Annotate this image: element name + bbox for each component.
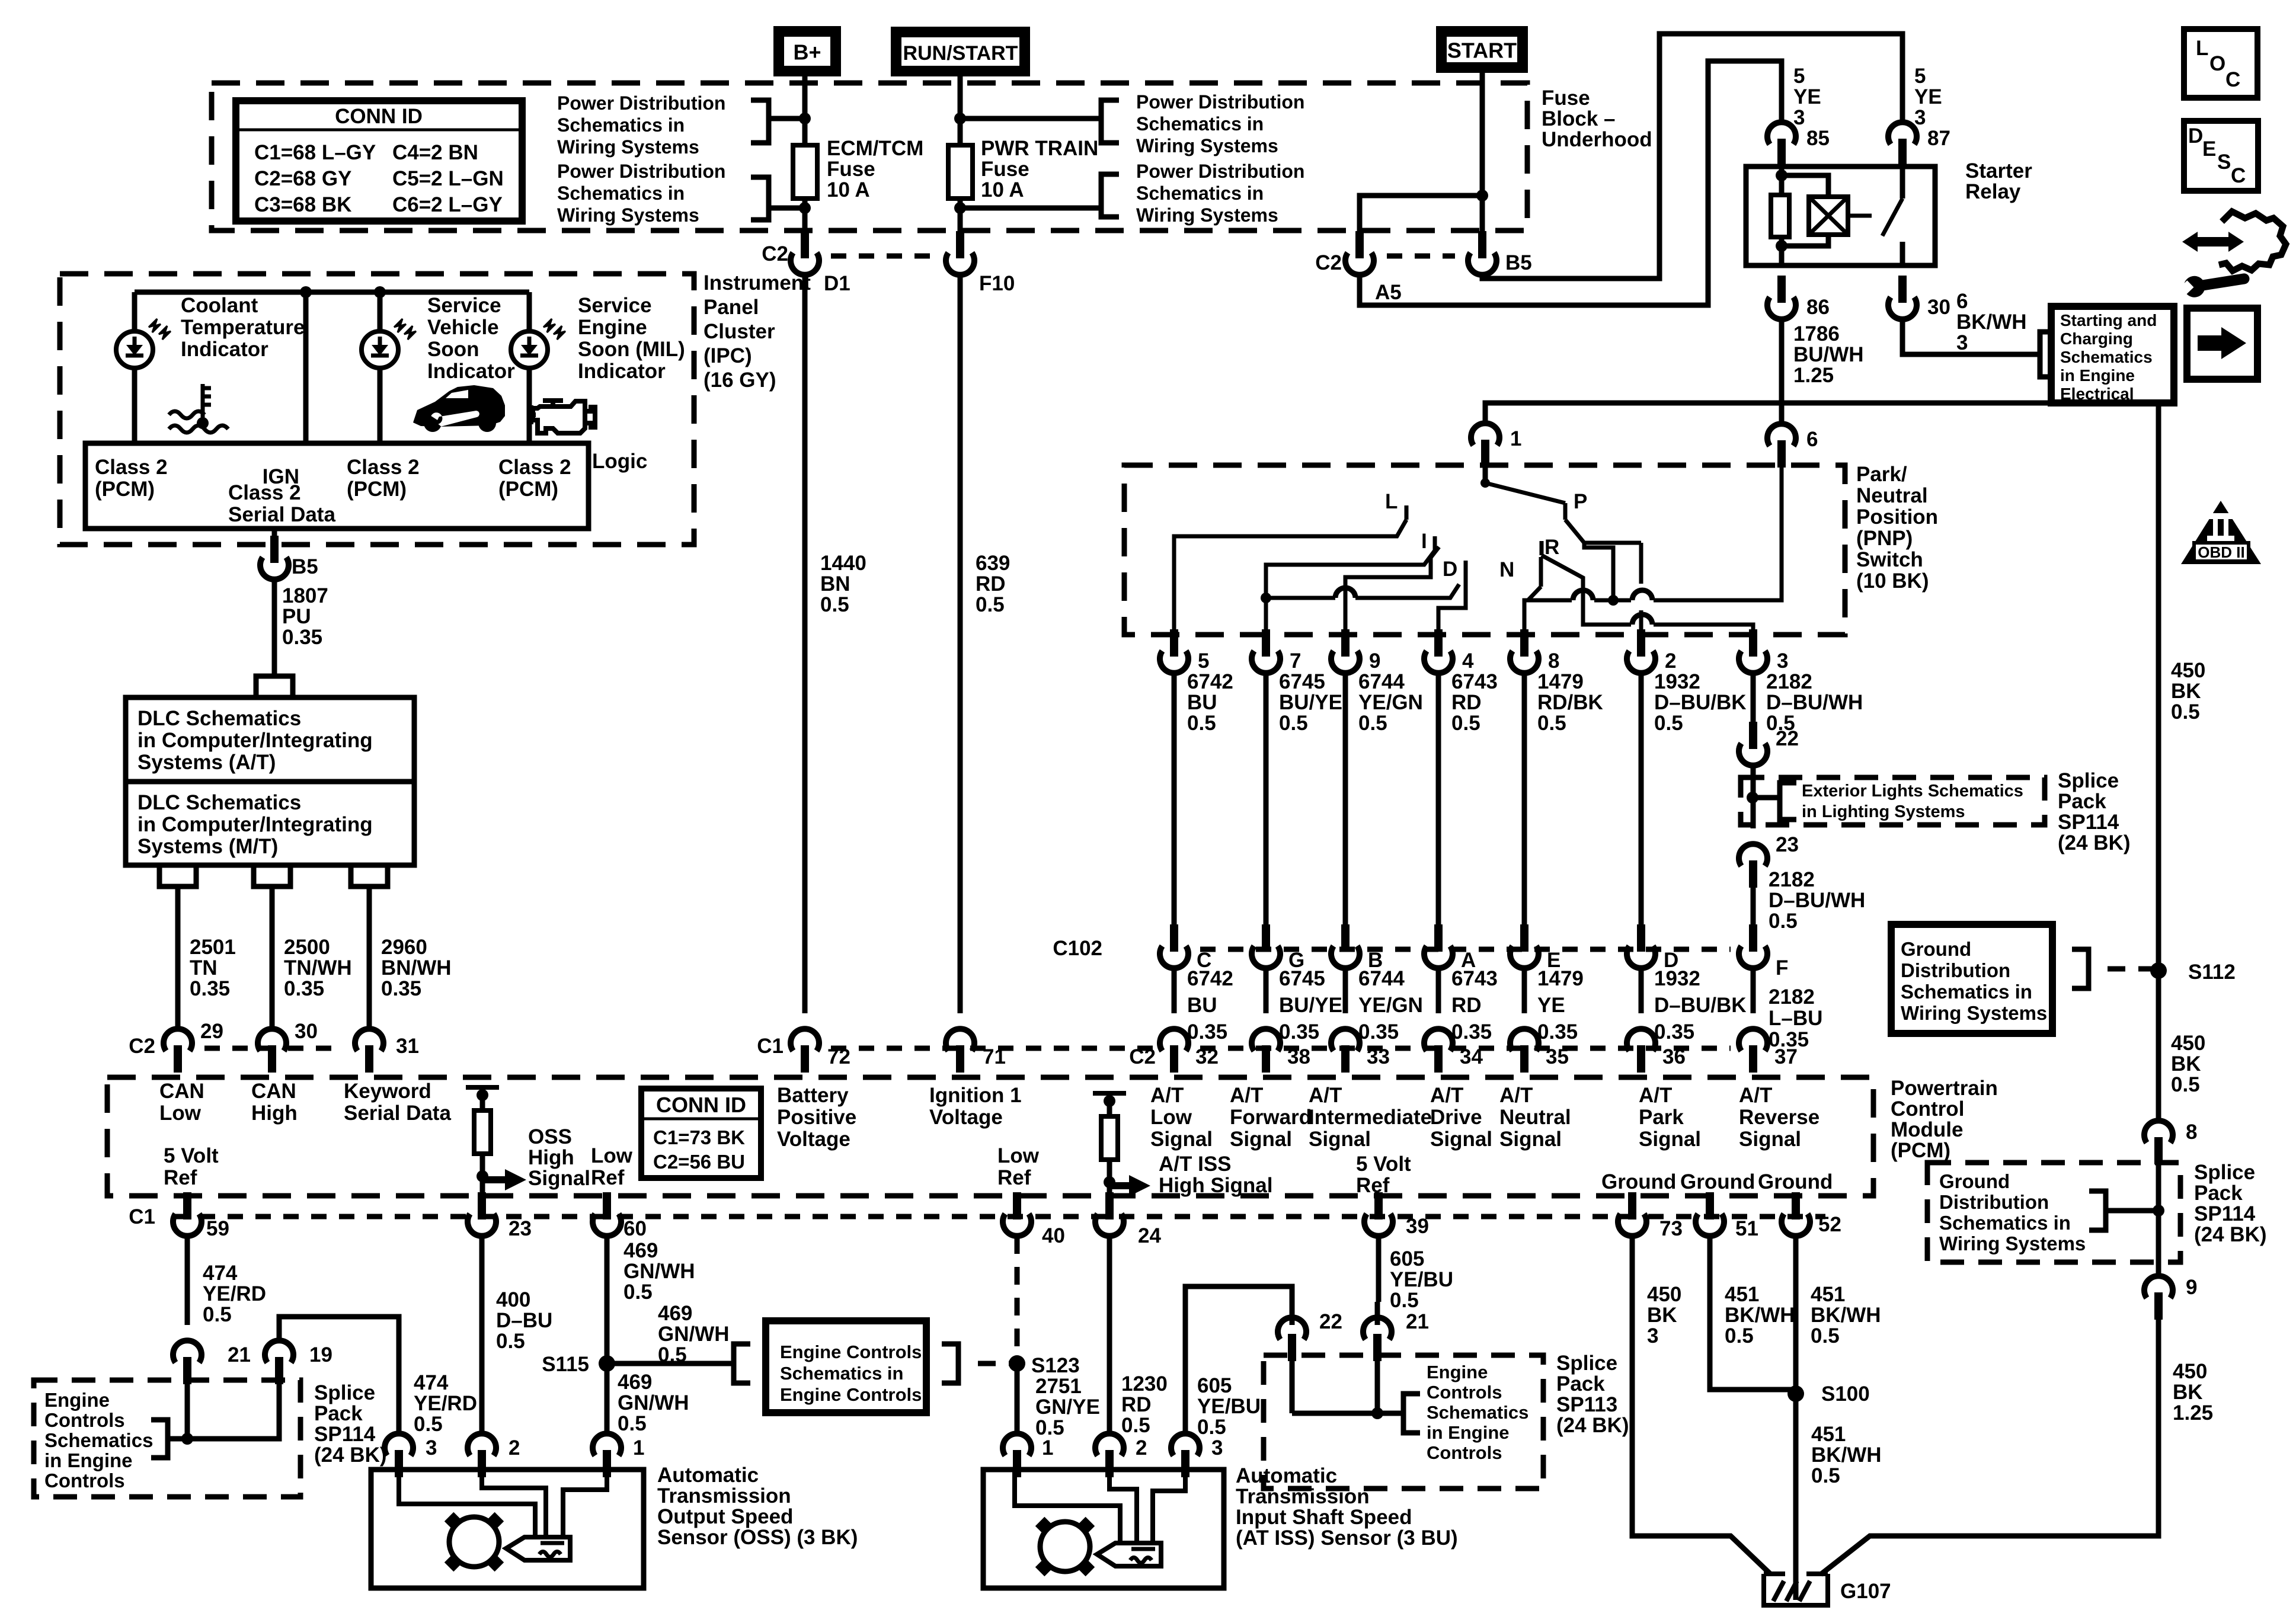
connector C1 pin 24 (1105, 1192, 1114, 1219)
svg-text:9: 9 (1369, 649, 1380, 673)
svg-text:1: 1 (633, 1436, 644, 1459)
svg-text:Low: Low (159, 1102, 202, 1125)
connector C1 pin 39 (1374, 1192, 1383, 1219)
connector row dotted line 32-37 (1200, 1046, 1731, 1051)
icon DESC box (2184, 121, 2258, 191)
svg-text:474: 474 (414, 1371, 449, 1394)
svg-text:Exterior Lights Schematics: Exterior Lights Schematics (1802, 782, 2023, 801)
svg-text:0.5: 0.5 (2171, 1073, 2200, 1096)
svg-text:0.5: 0.5 (2171, 700, 2200, 724)
goalpost DLC output 2 (254, 865, 290, 886)
svg-text:S: S (2217, 151, 2231, 174)
svg-text:Ground: Ground (1601, 1170, 1676, 1193)
connector C102 pin B (1341, 924, 1350, 952)
svg-text:R: R (1544, 536, 1559, 559)
svg-text:BU/YE: BU/YE (1279, 691, 1342, 714)
svg-text:22: 22 (1319, 1310, 1342, 1333)
svg-text:469: 469 (618, 1371, 652, 1394)
svg-text:YE/GN: YE/GN (1358, 691, 1423, 714)
svg-text:5: 5 (1793, 65, 1805, 88)
connector C2 pin 36 (1637, 1045, 1645, 1073)
svg-text:B5: B5 (1505, 251, 1532, 274)
svg-text:30: 30 (1927, 296, 1950, 319)
splice S100 (1787, 1385, 1804, 1402)
svg-text:3: 3 (1914, 106, 1926, 129)
junction node on RUN/START wire (954, 113, 966, 124)
svg-text:(PCM): (PCM) (347, 478, 407, 501)
dashed wire to S123 (978, 1361, 1017, 1366)
svg-text:A/T: A/T (1430, 1084, 1463, 1107)
svg-text:2500: 2500 (284, 936, 330, 959)
svg-text:6: 6 (1956, 290, 1968, 313)
svg-text:1: 1 (1510, 427, 1521, 450)
svg-text:Engine: Engine (578, 316, 647, 339)
svg-text:Class 2: Class 2 (347, 456, 420, 479)
connector C2 pin 38 (1262, 1045, 1270, 1073)
svg-text:Signal: Signal (1150, 1128, 1213, 1151)
svg-text:C1: C1 (129, 1205, 155, 1228)
svg-text:451: 451 (1811, 1423, 1846, 1446)
bracket engine controls note (SP114) (168, 1436, 187, 1442)
wire intermediate to pin 9 (1345, 547, 1439, 635)
fuse block underhood dashed box (212, 83, 1527, 231)
svg-text:SP114: SP114 (314, 1423, 376, 1446)
junction node SP114 left (181, 1433, 193, 1445)
OSS sensor connectors (395, 1450, 403, 1477)
wire C102 E to PCM 35 (1522, 968, 1527, 1013)
svg-text:451: 451 (1725, 1283, 1759, 1306)
svg-text:3: 3 (1777, 649, 1788, 673)
svg-text:A/T ISS: A/T ISS (1159, 1153, 1232, 1176)
svg-text:Engine Controls: Engine Controls (780, 1384, 922, 1405)
svg-text:in Computer/Integrating: in Computer/Integrating (137, 729, 373, 752)
icon wrench and arrows (2219, 212, 2286, 271)
svg-text:D1: D1 (824, 272, 850, 295)
svg-text:Output Speed: Output Speed (657, 1505, 793, 1528)
wire 450 BK 1.25 to G107 (1821, 1304, 2159, 1574)
svg-text:YE/RD: YE/RD (414, 1392, 477, 1415)
svg-text:PU: PU (282, 605, 311, 628)
svg-text:0.5: 0.5 (1811, 1324, 1840, 1347)
resistor OSS pullup inside PCM (466, 1085, 499, 1090)
connector PNP pin 3 (1749, 629, 1757, 657)
svg-text:0.5: 0.5 (1197, 1416, 1226, 1439)
wire ECM/TCM fuse to connector D1 (802, 199, 808, 237)
svg-text:BK: BK (2171, 680, 2201, 703)
svg-text:BU/WH: BU/WH (1793, 343, 1864, 366)
svg-text:Class 2: Class 2 (498, 456, 571, 479)
svg-text:52: 52 (1818, 1213, 1841, 1236)
svg-text:RD: RD (1121, 1393, 1152, 1416)
svg-text:0.5: 0.5 (1121, 1414, 1150, 1437)
svg-text:Wiring Systems: Wiring Systems (1939, 1233, 2086, 1254)
svg-text:Schematics in: Schematics in (1136, 183, 1264, 204)
svg-text:GN/WH: GN/WH (618, 1391, 689, 1414)
svg-text:CONN ID: CONN ID (335, 105, 423, 128)
junction node SP113 (1371, 1407, 1383, 1419)
engine controls schematics box (S115) (766, 1321, 926, 1413)
svg-text:Ground: Ground (1901, 938, 1971, 960)
svg-text:Schematics in: Schematics in (1939, 1212, 2071, 1234)
svg-text:Block –: Block – (1542, 107, 1616, 130)
bracket to note lower-middle (1101, 174, 1119, 217)
svg-text:C2: C2 (1315, 251, 1342, 274)
svg-text:Battery: Battery (777, 1084, 849, 1107)
svg-text:TN/WH: TN/WH (284, 956, 352, 980)
svg-text:Schematics in: Schematics in (557, 183, 685, 204)
svg-text:0.35: 0.35 (1358, 1020, 1399, 1044)
svg-text:Automatic: Automatic (1236, 1464, 1337, 1487)
wire 2960 BN/WH (367, 886, 372, 1028)
svg-text:N: N (1499, 558, 1514, 581)
svg-text:0.5: 0.5 (1769, 910, 1798, 933)
svg-text:Power Distribution: Power Distribution (1136, 161, 1304, 182)
svg-text:Wiring Systems: Wiring Systems (1136, 135, 1278, 156)
svg-text:F10: F10 (979, 272, 1015, 295)
svg-text:in Engine: in Engine (44, 1449, 133, 1471)
wire 1230 RD pin 24 to ISS 2 (1107, 1236, 1112, 1433)
svg-text:2182: 2182 (1766, 670, 1812, 693)
svg-text:ECM/TCM: ECM/TCM (827, 137, 923, 160)
svg-text:E: E (2202, 137, 2216, 161)
svg-text:0.5: 0.5 (618, 1412, 647, 1435)
connector C1 pin 51 (1706, 1192, 1714, 1219)
wires PNP pins down to C102 (1172, 673, 1177, 924)
svg-text:C1=68 L–GY: C1=68 L–GY (254, 141, 376, 164)
svg-text:G107: G107 (1840, 1580, 1891, 1603)
svg-text:BN: BN (820, 572, 850, 596)
svg-text:D–BU/WH: D–BU/WH (1766, 691, 1863, 714)
svg-text:Signal: Signal (1739, 1128, 1801, 1151)
svg-text:0.5: 0.5 (496, 1330, 525, 1353)
wire 451 BK/WH pin 51 to S100 (1710, 1236, 1796, 1390)
connector row dotted line 29-31 (204, 1046, 344, 1051)
svg-text:0.5: 0.5 (414, 1413, 443, 1436)
connector C2 pin 35 (1520, 1045, 1528, 1073)
svg-text:0.35: 0.35 (1279, 1020, 1319, 1044)
ground G107 symbol (1764, 1574, 1828, 1605)
svg-text:474: 474 (203, 1262, 238, 1285)
svg-text:Transmission: Transmission (657, 1484, 791, 1507)
indicator lamp coolant temperature (132, 292, 137, 331)
svg-text:0.5: 0.5 (1654, 712, 1683, 735)
svg-text:5 Volt: 5 Volt (1356, 1153, 1411, 1176)
svg-text:Wiring Systems: Wiring Systems (1901, 1002, 2047, 1024)
svg-text:5 Volt: 5 Volt (164, 1144, 219, 1167)
svg-text:GN/YE: GN/YE (1035, 1395, 1100, 1419)
svg-text:6744: 6744 (1358, 670, 1405, 693)
svg-text:(PNP): (PNP) (1856, 527, 1913, 550)
ISS pickup pointer icon (1097, 1543, 1161, 1566)
junction node below ECM/TCM fuse (799, 202, 811, 214)
svg-text:Power Distribution: Power Distribution (557, 161, 725, 182)
svg-text:D–BU/BK: D–BU/BK (1654, 691, 1747, 714)
icon OBD II triangle (2181, 501, 2261, 564)
svg-text:8: 8 (2186, 1121, 2197, 1144)
svg-text:C3=68 BK: C3=68 BK (254, 193, 351, 216)
svg-text:A/T: A/T (1230, 1084, 1263, 1107)
wire 2500 TN/WH (270, 886, 275, 1028)
svg-text:RD: RD (1451, 691, 1482, 714)
svg-text:39: 39 (1406, 1215, 1429, 1238)
svg-text:YE: YE (1537, 994, 1565, 1017)
connector 21 (SP113) (1373, 1334, 1382, 1361)
wire 400 D-BU pin 23 to OSS 2 (479, 1236, 485, 1433)
svg-text:22: 22 (1776, 727, 1799, 750)
svg-text:2960: 2960 (381, 936, 427, 959)
svg-text:C2=56 BU: C2=56 BU (653, 1151, 745, 1173)
svg-text:51: 51 (1735, 1217, 1758, 1240)
svg-text:C4=2 BN: C4=2 BN (392, 141, 478, 164)
splice pack SP114 dashed box (left) (34, 1380, 300, 1497)
svg-text:(PCM): (PCM) (1891, 1139, 1950, 1162)
svg-text:Position: Position (1856, 505, 1938, 529)
svg-text:Controls: Controls (1427, 1442, 1502, 1463)
connector C2 A5 (1355, 231, 1364, 258)
connector B5 (fuse block) (1478, 231, 1486, 258)
svg-text:Pack: Pack (2058, 790, 2106, 813)
svg-text:21: 21 (228, 1343, 251, 1366)
wire I to pin 7 (1266, 550, 1435, 595)
svg-text:C1=73 BK: C1=73 BK (653, 1126, 745, 1148)
svg-text:S100: S100 (1821, 1382, 1870, 1406)
svg-text:450: 450 (2171, 1032, 2205, 1055)
connector C102 pin G (1262, 924, 1270, 952)
wire 450 BK PNP 1 rail down right side (2156, 403, 2161, 1120)
svg-text:0.5: 0.5 (976, 593, 1005, 616)
wire C102 A to PCM 34 (1436, 968, 1441, 1013)
svg-text:Low: Low (997, 1144, 1040, 1167)
svg-text:0.5: 0.5 (1279, 712, 1308, 735)
svg-text:Wiring Systems: Wiring Systems (557, 136, 699, 158)
wire C102 B to PCM 33 (1343, 968, 1348, 1013)
svg-text:450: 450 (2173, 1360, 2207, 1383)
svg-text:19: 19 (309, 1343, 332, 1366)
svg-text:1807: 1807 (282, 584, 328, 607)
svg-text:C5=2 L–GN: C5=2 L–GN (392, 167, 504, 190)
svg-text:23: 23 (509, 1217, 532, 1240)
connector row dotted line 71-32 (831, 1046, 1160, 1051)
svg-text:Indicator: Indicator (578, 360, 666, 383)
splice S112 (2150, 962, 2167, 979)
svg-text:Fuse: Fuse (827, 158, 875, 181)
dashed wire bracket to S112 (2108, 966, 2159, 972)
svg-text:Systems (A/T): Systems (A/T) (137, 751, 276, 774)
connector B5 (IPC) (270, 536, 279, 563)
junction node on B+ wire (799, 113, 811, 124)
svg-text:0.35: 0.35 (1187, 1020, 1227, 1044)
svg-text:1230: 1230 (1121, 1372, 1168, 1395)
icon car with wrench (413, 385, 505, 427)
svg-text:High: High (528, 1146, 574, 1169)
svg-text:6: 6 (1806, 428, 1818, 451)
OSS pickup pointer icon (506, 1537, 570, 1560)
connector C1 pin 72 (801, 1045, 809, 1073)
bracket engine controls (SP113) (1403, 1394, 1420, 1433)
wire C102 F to PCM 37 (1751, 968, 1756, 1013)
svg-text:C2=68 GY: C2=68 GY (254, 167, 351, 190)
svg-text:Signal: Signal (1309, 1128, 1371, 1151)
svg-text:Controls: Controls (1427, 1382, 1502, 1403)
svg-text:Switch: Switch (1856, 548, 1923, 571)
wire 1786 BU/WH relay 86 to PNP 6 (1779, 319, 1785, 423)
svg-text:A/T: A/T (1739, 1084, 1772, 1107)
wire N blade to pin 8 (1524, 587, 1541, 635)
svg-text:in Computer/Integrating: in Computer/Integrating (137, 813, 373, 836)
splice pack SP114 exterior lights dashed box (1741, 777, 2045, 825)
svg-text:Ref: Ref (997, 1166, 1031, 1189)
wire 474 YE/RD pin 59 to splice 21 (185, 1236, 190, 1325)
icon engine MIL (531, 401, 595, 433)
svg-text:Park: Park (1639, 1106, 1684, 1129)
svg-text:Control: Control (1891, 1097, 1964, 1121)
svg-text:1932: 1932 (1654, 670, 1700, 693)
connector C102 pin D (1637, 924, 1645, 952)
svg-text:(PCM): (PCM) (95, 478, 155, 501)
wire 2182 D-BU/WH to C102 F (1751, 872, 1756, 924)
indicator lamp service vehicle soon (378, 292, 383, 331)
connector C102 pin C (1170, 924, 1178, 952)
svg-text:0.35: 0.35 (190, 977, 230, 1000)
bracket right of engine controls box (942, 1344, 958, 1383)
svg-text:Serial Data: Serial Data (344, 1102, 451, 1125)
connector C102 pin F (1749, 924, 1757, 952)
power terminal RUN/START (891, 27, 1030, 76)
svg-text:SP114: SP114 (2058, 811, 2119, 834)
svg-text:Vehicle: Vehicle (427, 316, 499, 339)
junction node IGN rail (300, 286, 312, 298)
connector 19 (SP114) (275, 1357, 283, 1384)
svg-text:7: 7 (1290, 649, 1301, 673)
goalpost DLC output 1 (159, 865, 196, 886)
svg-text:Pack: Pack (2194, 1182, 2243, 1205)
svg-text:in Engine: in Engine (2060, 366, 2135, 385)
svg-text:Service: Service (578, 294, 652, 317)
svg-text:Serial Data: Serial Data (228, 503, 335, 526)
svg-text:37: 37 (1774, 1045, 1798, 1068)
svg-text:Engine: Engine (44, 1389, 110, 1411)
svg-text:(24 BK): (24 BK) (2194, 1223, 2267, 1246)
svg-text:Logic: Logic (592, 450, 647, 473)
connector C2 pin 34 (1434, 1045, 1443, 1073)
svg-text:0.35: 0.35 (282, 626, 322, 649)
svg-text:1479: 1479 (1537, 967, 1584, 990)
svg-text:Ref: Ref (164, 1166, 197, 1189)
svg-text:2182: 2182 (1769, 868, 1815, 891)
wire 1807 PU logic to B5 (272, 529, 277, 536)
relay coil branch wires (1782, 175, 1828, 197)
svg-text:1.25: 1.25 (1793, 364, 1834, 387)
connector 85 (1777, 139, 1786, 166)
svg-text:A5: A5 (1375, 281, 1402, 304)
wire L to pin 5 (1174, 520, 1406, 635)
svg-text:Signal: Signal (1430, 1128, 1492, 1151)
svg-text:1786: 1786 (1793, 322, 1840, 345)
instrument panel cluster dashed box (60, 274, 694, 545)
svg-text:C1: C1 (757, 1035, 784, 1058)
svg-text:(24 BK): (24 BK) (1556, 1414, 1629, 1437)
svg-text:CAN: CAN (251, 1080, 296, 1103)
svg-text:Schematics in: Schematics in (780, 1363, 903, 1384)
wire A5 to relay 85 (1360, 61, 1782, 305)
svg-text:Underhood: Underhood (1542, 128, 1652, 151)
power terminal START (1436, 26, 1528, 73)
svg-text:Positive: Positive (777, 1106, 856, 1129)
svg-text:Voltage: Voltage (777, 1128, 850, 1151)
splice pack SP114 dashed box (right) (1927, 1163, 2180, 1262)
svg-text:(24 BK): (24 BK) (2058, 831, 2131, 854)
svg-text:BK/WH: BK/WH (1811, 1443, 1882, 1467)
svg-text:0.5: 0.5 (1451, 712, 1480, 735)
OSS pickup coil icon (445, 1512, 504, 1571)
connector PNP pin 2 (1637, 629, 1645, 657)
svg-text:SP113: SP113 (1556, 1393, 1617, 1416)
svg-text:Indicator: Indicator (181, 338, 268, 361)
OSS internal wires (399, 1470, 535, 1541)
svg-text:Engine Controls: Engine Controls (780, 1342, 922, 1362)
svg-text:450: 450 (2171, 659, 2205, 682)
junction node relay coil bottom (1776, 240, 1787, 252)
connector 21 (SP114) (183, 1357, 191, 1384)
svg-text:Service: Service (427, 294, 501, 317)
svg-text:86: 86 (1806, 296, 1830, 319)
connector 86 (1777, 276, 1786, 303)
svg-text:Charging: Charging (2060, 329, 2133, 348)
svg-text:(PCM): (PCM) (498, 478, 558, 501)
svg-text:Fuse: Fuse (1542, 87, 1590, 110)
svg-text:0.5: 0.5 (1358, 712, 1387, 735)
svg-text:451: 451 (1811, 1283, 1845, 1306)
svg-text:8: 8 (1548, 649, 1559, 673)
svg-text:85: 85 (1806, 127, 1830, 150)
svg-text:10 A: 10 A (981, 178, 1024, 201)
svg-text:Temperature: Temperature (181, 316, 305, 339)
svg-text:Splice: Splice (1556, 1352, 1617, 1375)
park/neutral position switch dashed box (1124, 465, 1845, 635)
junction node SP114 (1747, 792, 1758, 804)
svg-text:450: 450 (1647, 1283, 1681, 1306)
connector C2 pin 32 (1170, 1045, 1178, 1073)
connector C102 pin A (1434, 924, 1443, 952)
svg-text:A/T: A/T (1499, 1084, 1533, 1107)
svg-text:(24 BK): (24 BK) (314, 1443, 387, 1467)
connector C1 pin 73 (1628, 1192, 1636, 1219)
svg-text:Park/: Park/ (1856, 463, 1907, 486)
svg-text:YE/GN: YE/GN (1358, 994, 1423, 1017)
bracket to note upper-left (751, 100, 769, 143)
svg-text:PWR TRAIN: PWR TRAIN (981, 137, 1098, 160)
svg-text:GN/WH: GN/WH (658, 1323, 730, 1346)
svg-text:Systems (M/T): Systems (M/T) (137, 835, 278, 858)
svg-text:C2: C2 (762, 242, 788, 265)
svg-text:RUN/START: RUN/START (903, 42, 1018, 65)
wire C102 C to PCM 32 (1172, 968, 1177, 1013)
connector 22 (SP113) (1288, 1334, 1296, 1361)
svg-text:Ground: Ground (1680, 1170, 1755, 1193)
wire 474 YE/RD splice 19 to OSS 3 (279, 1317, 399, 1433)
IPC top rail wire (135, 290, 529, 295)
svg-text:Low: Low (591, 1144, 633, 1167)
svg-text:DLC Schematics: DLC Schematics (137, 791, 301, 814)
automatic transmission input shaft speed sensor box (983, 1470, 1224, 1588)
svg-text:6742: 6742 (1187, 670, 1233, 693)
svg-text:S112: S112 (2188, 961, 2236, 984)
svg-text:OBD II: OBD II (2198, 543, 2244, 561)
svg-text:L: L (2196, 37, 2208, 60)
connector 22 (SP114 exterior lights) (1749, 722, 1757, 749)
svg-text:Wiring Systems: Wiring Systems (557, 204, 699, 226)
automatic transmission output speed sensor box (371, 1470, 644, 1588)
